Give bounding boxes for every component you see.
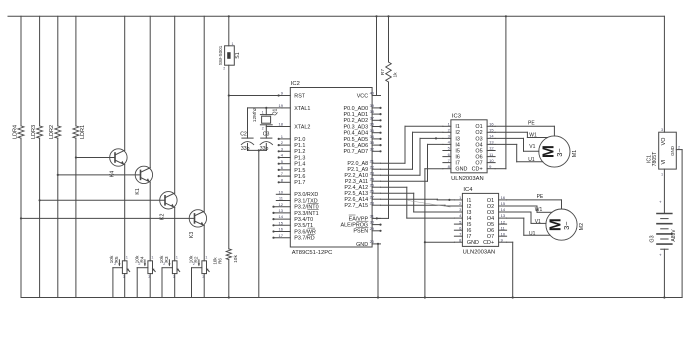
svg-text:28: 28 xyxy=(370,200,375,205)
svg-text:XTAL2: XTAL2 xyxy=(294,124,310,130)
svg-text:V1: V1 xyxy=(535,219,541,225)
svg-text:O7: O7 xyxy=(475,161,482,167)
svg-text:17: 17 xyxy=(279,233,284,238)
svg-text:1: 1 xyxy=(126,256,128,260)
svg-text:LDR2: LDR2 xyxy=(49,125,55,139)
svg-text:I3: I3 xyxy=(467,210,472,216)
svg-text:IC4: IC4 xyxy=(463,187,473,193)
svg-text:I5: I5 xyxy=(467,222,472,228)
svg-text:O1: O1 xyxy=(487,198,494,204)
svg-text:K3: K3 xyxy=(189,232,195,238)
svg-text:24: 24 xyxy=(370,176,375,181)
svg-text:W1: W1 xyxy=(529,132,537,138)
svg-text:P3.2/INT0: P3.2/INT0 xyxy=(294,205,318,211)
svg-text:I4: I4 xyxy=(455,142,460,148)
svg-text:P1.1: P1.1 xyxy=(294,143,305,149)
svg-text:P1.6: P1.6 xyxy=(294,174,305,180)
svg-text:25: 25 xyxy=(370,182,375,187)
svg-text:P1.5: P1.5 xyxy=(294,168,305,174)
svg-text:P0.3_AD3: P0.3_AD3 xyxy=(344,124,369,130)
svg-text:IC3: IC3 xyxy=(452,114,461,120)
svg-text:33p: 33p xyxy=(260,146,269,152)
svg-text:GND: GND xyxy=(467,240,479,246)
svg-text:29: 29 xyxy=(370,226,375,231)
svg-text:P1.4: P1.4 xyxy=(294,162,305,168)
svg-text:CD+: CD+ xyxy=(472,167,483,173)
svg-text:PE: PE xyxy=(528,121,535,127)
svg-text:30: 30 xyxy=(370,220,375,225)
svg-text:P1.3: P1.3 xyxy=(294,155,305,161)
svg-text:CD+: CD+ xyxy=(483,240,494,246)
svg-text:10: 10 xyxy=(501,231,506,236)
svg-text:LDR1: LDR1 xyxy=(80,125,86,139)
svg-text:LDR3: LDR3 xyxy=(31,125,37,139)
svg-text:U1: U1 xyxy=(529,231,536,237)
svg-text:ALE/PROG: ALE/PROG xyxy=(341,223,369,229)
svg-text:P3.6/WR: P3.6/WR xyxy=(294,229,316,235)
svg-text:12: 12 xyxy=(501,219,506,224)
svg-text:1: 1 xyxy=(176,256,178,260)
svg-text:1: 1 xyxy=(232,42,234,46)
svg-text:A89V: A89V xyxy=(671,229,677,242)
svg-text:P3.1/TXD: P3.1/TXD xyxy=(294,198,317,204)
svg-text:13: 13 xyxy=(279,208,284,213)
svg-text:3: 3 xyxy=(148,275,150,279)
svg-text:Q1: Q1 xyxy=(273,108,279,115)
svg-text:2: 2 xyxy=(223,66,225,70)
svg-text:14: 14 xyxy=(279,214,284,219)
svg-text:36: 36 xyxy=(370,122,375,127)
svg-text:1: 1 xyxy=(661,173,663,177)
svg-text:P2.7_A15: P2.7_A15 xyxy=(344,203,368,209)
svg-text:14: 14 xyxy=(489,134,494,139)
svg-text:R4: R4 xyxy=(140,256,146,262)
svg-text:18: 18 xyxy=(279,122,284,127)
svg-text:K1: K1 xyxy=(135,188,141,194)
svg-text:I5: I5 xyxy=(455,148,460,154)
svg-text:10: 10 xyxy=(279,189,284,194)
svg-text:O5: O5 xyxy=(487,222,494,228)
svg-text:ULN2003AN: ULN2003AN xyxy=(463,250,496,256)
svg-text:1: 1 xyxy=(262,111,264,115)
svg-text:I2: I2 xyxy=(455,130,460,136)
svg-text:C2: C2 xyxy=(240,131,247,137)
svg-text:P1.7: P1.7 xyxy=(294,180,305,186)
svg-text:SW-S001: SW-S001 xyxy=(218,45,223,65)
svg-text:14: 14 xyxy=(501,207,506,212)
svg-text:O3: O3 xyxy=(487,210,494,216)
svg-text:10k: 10k xyxy=(233,255,239,263)
svg-text:O2: O2 xyxy=(475,130,482,136)
svg-text:P0.7_AD7: P0.7_AD7 xyxy=(344,149,369,155)
svg-text:P3.4/T0: P3.4/T0 xyxy=(294,217,313,223)
svg-text:PSEN: PSEN xyxy=(353,229,368,235)
svg-text:V1: V1 xyxy=(529,144,535,150)
svg-text:GND: GND xyxy=(670,146,675,156)
svg-text:P3.5/T1: P3.5/T1 xyxy=(294,223,313,229)
svg-text:O5: O5 xyxy=(475,148,482,154)
svg-text:12Mhz: 12Mhz xyxy=(252,107,258,122)
svg-text:XTAL1: XTAL1 xyxy=(294,106,310,112)
svg-text:33p: 33p xyxy=(241,146,250,152)
svg-text:O7: O7 xyxy=(487,234,494,240)
svg-text:P0.6_AD6: P0.6_AD6 xyxy=(344,143,369,149)
svg-text:IC2: IC2 xyxy=(291,81,300,87)
svg-text:3~: 3~ xyxy=(555,148,564,157)
svg-text:GND: GND xyxy=(356,242,368,248)
svg-text:3: 3 xyxy=(123,275,125,279)
svg-text:38: 38 xyxy=(370,109,375,114)
svg-text:27: 27 xyxy=(370,194,375,199)
svg-text:20: 20 xyxy=(370,239,375,244)
svg-text:3: 3 xyxy=(661,128,663,132)
svg-text:GND: GND xyxy=(455,167,467,173)
svg-text:3: 3 xyxy=(202,275,204,279)
svg-text:1: 1 xyxy=(151,256,153,260)
svg-text:G3: G3 xyxy=(650,235,656,242)
svg-text:VI: VI xyxy=(661,159,667,164)
svg-text:C3: C3 xyxy=(263,131,270,137)
svg-text:23: 23 xyxy=(370,170,375,175)
svg-text:VCC: VCC xyxy=(357,93,368,99)
svg-text:15: 15 xyxy=(279,220,284,225)
svg-text:12: 12 xyxy=(489,146,494,151)
svg-text:31: 31 xyxy=(370,214,375,219)
svg-text:16: 16 xyxy=(279,227,284,232)
svg-text:M1: M1 xyxy=(572,150,578,157)
svg-text:R5: R5 xyxy=(114,256,120,262)
svg-text:P0.5_AD5: P0.5_AD5 xyxy=(344,137,369,143)
svg-text:32: 32 xyxy=(370,146,375,151)
svg-text:K2: K2 xyxy=(160,214,166,220)
svg-text:P0.0_AD0: P0.0_AD0 xyxy=(344,106,369,112)
svg-text:39: 39 xyxy=(370,103,375,108)
svg-text:P1.2: P1.2 xyxy=(294,149,305,155)
svg-text:I7: I7 xyxy=(455,161,460,167)
svg-text:7805T: 7805T xyxy=(652,151,658,167)
svg-text:10: 10 xyxy=(489,158,494,163)
svg-text:ULN2003AN: ULN2003AN xyxy=(451,176,484,182)
svg-text:1: 1 xyxy=(205,256,207,260)
svg-text:37: 37 xyxy=(370,115,375,120)
svg-text:2: 2 xyxy=(678,146,680,150)
svg-text:21: 21 xyxy=(370,158,375,163)
svg-text:12: 12 xyxy=(279,202,284,207)
svg-text:RST: RST xyxy=(294,93,305,99)
svg-text:34: 34 xyxy=(370,134,375,139)
svg-text:R7: R7 xyxy=(380,69,386,75)
svg-text:U1: U1 xyxy=(528,157,535,163)
svg-text:35: 35 xyxy=(370,128,375,133)
svg-text:R3: R3 xyxy=(164,256,170,262)
svg-text:I1: I1 xyxy=(467,198,472,204)
svg-text:P0.2_AD2: P0.2_AD2 xyxy=(344,118,369,124)
svg-text:33: 33 xyxy=(370,140,375,145)
svg-text:VO: VO xyxy=(661,138,667,146)
svg-text:+: + xyxy=(659,200,662,205)
svg-text:16: 16 xyxy=(489,122,494,127)
svg-text:3~: 3~ xyxy=(562,221,571,230)
svg-text:P1.0: P1.0 xyxy=(294,137,305,143)
svg-text:15: 15 xyxy=(501,201,506,206)
svg-text:S1: S1 xyxy=(235,52,241,58)
svg-text:R2: R2 xyxy=(194,256,200,262)
svg-text:P0.1_AD1: P0.1_AD1 xyxy=(344,112,369,118)
svg-text:M2: M2 xyxy=(579,223,585,230)
svg-text:W1: W1 xyxy=(535,207,543,213)
svg-text:O4: O4 xyxy=(475,142,482,148)
svg-text:26: 26 xyxy=(370,188,375,193)
svg-text:1k: 1k xyxy=(393,72,399,78)
svg-text:2: 2 xyxy=(262,127,264,131)
svg-text:PE: PE xyxy=(537,194,544,200)
svg-text:15: 15 xyxy=(489,128,494,133)
svg-text:EA/VPP: EA/VPP xyxy=(349,216,369,222)
svg-text:16: 16 xyxy=(501,195,506,200)
svg-text:P0.4_AD4: P0.4_AD4 xyxy=(344,131,369,137)
svg-text:40: 40 xyxy=(370,91,375,96)
svg-text:13: 13 xyxy=(501,213,506,218)
svg-text:K4: K4 xyxy=(110,171,116,177)
svg-text:19: 19 xyxy=(279,103,284,108)
svg-text:P3.0/RXD: P3.0/RXD xyxy=(294,192,318,198)
svg-text:13: 13 xyxy=(489,140,494,145)
svg-text:P3.7/RD: P3.7/RD xyxy=(294,236,314,242)
svg-text:+: + xyxy=(659,253,662,258)
svg-text:LDR4: LDR4 xyxy=(12,125,18,139)
svg-text:I7: I7 xyxy=(467,234,472,240)
svg-text:R6: R6 xyxy=(218,258,223,264)
svg-text:3: 3 xyxy=(173,275,175,279)
svg-text:22: 22 xyxy=(370,164,375,169)
svg-text:P3.3/INT1: P3.3/INT1 xyxy=(294,211,318,217)
svg-text:AT89C51-12PC: AT89C51-12PC xyxy=(292,250,333,256)
